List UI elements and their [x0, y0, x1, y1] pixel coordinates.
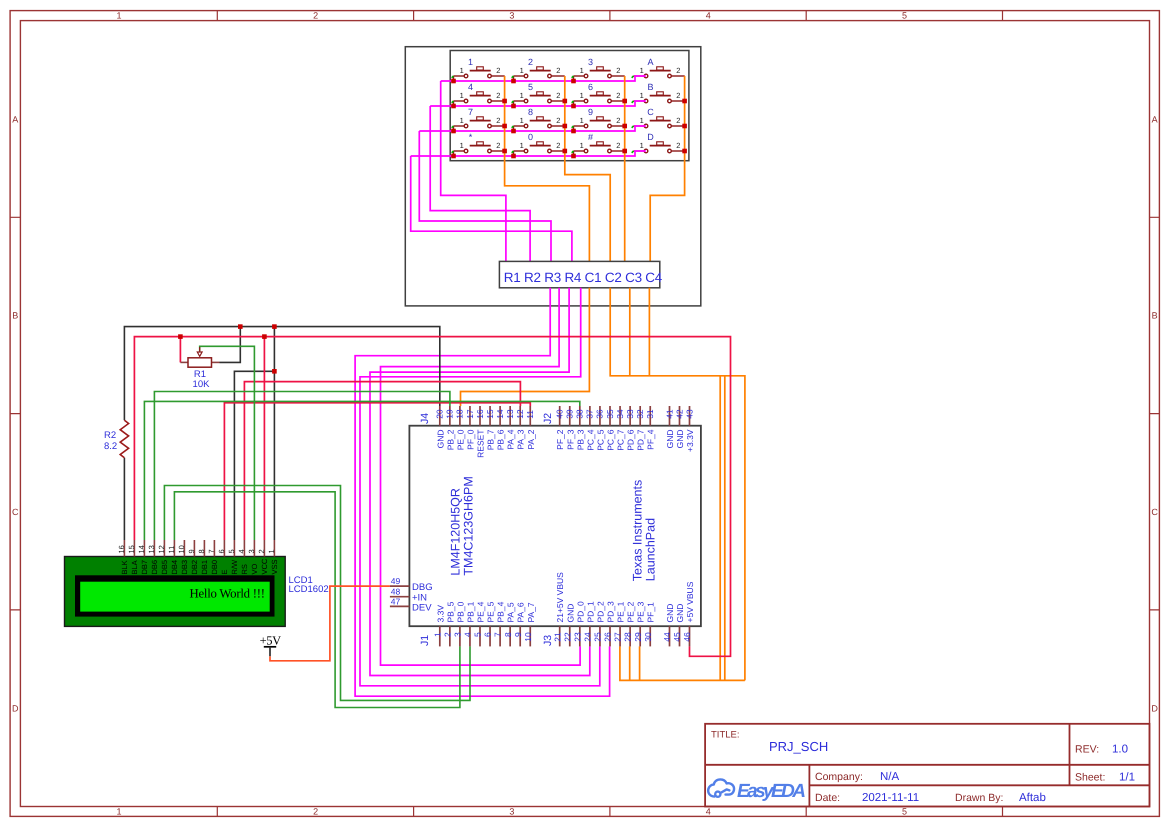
svg-text:2: 2	[313, 807, 318, 817]
MCU pin 40 (PF_2) top stub	[559, 406, 561, 426]
svg-text:2: 2	[616, 66, 620, 75]
pushbutton switch S8 "B"	[634, 92, 685, 103]
svg-text:1: 1	[640, 116, 644, 125]
svg-text:10K: 10K	[193, 379, 211, 390]
svg-text:8: 8	[503, 632, 513, 637]
svg-text:1: 1	[460, 66, 464, 75]
svg-text:1: 1	[267, 549, 276, 553]
junction column C1 row 3	[502, 124, 507, 129]
MCU pin 34 (PC_7) top stub	[619, 406, 621, 426]
MCU pin 20 (GND) top stub	[439, 406, 441, 426]
svg-text:PA_6: PA_6	[516, 602, 526, 622]
junction column C1 row 4	[502, 149, 507, 154]
svg-text:4: 4	[706, 807, 711, 817]
svg-text:9: 9	[513, 632, 523, 637]
svg-text:9: 9	[588, 107, 593, 117]
junction column C2 row 4	[563, 149, 568, 154]
junction column C3 row 2	[622, 99, 627, 104]
svg-text:1: 1	[520, 116, 524, 125]
svg-text:GND: GND	[565, 604, 575, 623]
MCU pin 45 (GND) bottom stub	[679, 626, 681, 646]
svg-text:8: 8	[197, 549, 206, 553]
svg-text:2: 2	[496, 116, 500, 125]
svg-text:PF_4: PF_4	[646, 429, 656, 450]
svg-text:RS: RS	[240, 564, 249, 574]
switch S6 pin 1 connection drop	[513, 101, 515, 106]
svg-text:12: 12	[157, 545, 166, 553]
svg-text:1: 1	[520, 141, 524, 150]
svg-text:PD_6: PD_6	[626, 429, 636, 451]
switch S16 pin 1 connection drop	[632, 151, 634, 153]
MCU pin 25 (PD_2) bottom stub	[599, 626, 601, 646]
pushbutton switch S4 "A"	[634, 67, 685, 78]
pushbutton switch S6 "5"	[514, 92, 565, 103]
svg-text:1: 1	[432, 632, 442, 637]
LCD pin 6 stub	[223, 540, 225, 557]
svg-text:1: 1	[468, 57, 473, 67]
wire orange right side run 2	[724, 376, 726, 681]
title block outline	[705, 724, 1149, 807]
svg-text:DB6: DB6	[150, 560, 159, 575]
LCD pin 3 stub	[253, 540, 255, 557]
svg-text:PE_2: PE_2	[626, 601, 636, 622]
svg-text:47: 47	[391, 596, 401, 606]
pushbutton switch S9 "7"	[454, 117, 505, 128]
svg-text:42: 42	[674, 409, 684, 419]
MCU pin 6 (PE_5) bottom stub	[489, 626, 491, 646]
svg-text:PC_4: PC_4	[585, 429, 595, 451]
svg-text:PE_0: PE_0	[455, 429, 465, 450]
svg-text:+3.3V: +3.3V	[685, 429, 695, 452]
svg-text:VO: VO	[250, 563, 259, 574]
pushbutton switch S10 "8"	[514, 117, 565, 128]
svg-text:13: 13	[505, 409, 515, 419]
svg-text:15: 15	[485, 409, 495, 419]
svg-text:TITLE:: TITLE:	[711, 730, 740, 741]
svg-text:15: 15	[127, 545, 136, 553]
svg-text:1: 1	[116, 10, 121, 20]
wire LCD VO to R1 wiper	[200, 346, 255, 540]
potentiometer R1 left pin stub	[180, 361, 188, 363]
svg-text:46: 46	[682, 632, 692, 642]
svg-text:1: 1	[640, 66, 644, 75]
wire net R4 loop to netport	[411, 156, 572, 261]
svg-text:2: 2	[616, 141, 620, 150]
MCU pin 21 (21+5V VBUS) bottom stub	[559, 626, 561, 646]
junction column C4 row 4	[682, 149, 687, 154]
svg-text:J2: J2	[542, 413, 554, 424]
svg-text:PB_6: PB_6	[496, 429, 506, 450]
svg-text:N/A: N/A	[880, 771, 900, 783]
svg-text:3: 3	[453, 632, 463, 637]
svg-text:PF_1: PF_1	[646, 602, 656, 623]
MCU pin 39 (PF_3) top stub	[569, 406, 571, 426]
MCU pin 35 (PC_6) top stub	[609, 406, 611, 426]
svg-text:A: A	[1152, 114, 1158, 124]
pushbutton switch S15 "#"	[574, 142, 625, 153]
svg-text:Sheet:: Sheet:	[1075, 772, 1105, 784]
MCU pin 47 (DEV) left stub	[390, 605, 410, 607]
wire LCD VCC to +5V net	[263, 337, 265, 540]
junction keypad row R1 col 2	[511, 79, 516, 84]
LCD pin 15 stub	[133, 540, 135, 557]
MCU pin 37 (PC_4) top stub	[589, 406, 591, 426]
svg-text:PE_4: PE_4	[476, 601, 486, 622]
MCU pin 36 (PC_5) top stub	[599, 406, 601, 426]
junction column C2 row 2	[563, 99, 568, 104]
MCU pin 49 (DBG) left stub	[390, 585, 410, 587]
switch S12 pin 1 connection drop	[632, 126, 634, 128]
switch S1 pin 1 connection drop	[453, 76, 455, 81]
switch S9 pin 1 connection drop	[453, 126, 455, 131]
junction +5V/R1	[178, 334, 183, 339]
svg-text:#: #	[588, 132, 593, 142]
svg-text:40: 40	[555, 409, 565, 419]
svg-text:1: 1	[640, 141, 644, 150]
potentiometer R1 wiper arrow	[199, 347, 201, 352]
MCU pin 22 (GND) bottom stub	[569, 626, 571, 646]
svg-text:DBG: DBG	[412, 582, 433, 593]
svg-text:27: 27	[613, 632, 623, 642]
MCU pin 41 (GND) top stub	[669, 406, 671, 426]
svg-text:5: 5	[902, 10, 907, 20]
svg-text:PD_7: PD_7	[636, 429, 646, 451]
junction keypad row R1 col 3	[571, 79, 576, 84]
MCU pin 24 (PD_1) bottom stub	[589, 626, 591, 646]
svg-text:PB_7: PB_7	[486, 429, 496, 450]
pushbutton switch S1 "1"	[454, 67, 505, 78]
svg-text:2: 2	[556, 116, 560, 125]
svg-text:EasyEDA: EasyEDA	[737, 781, 806, 802]
wire net C2 netport down	[610, 288, 745, 681]
svg-text:2: 2	[616, 116, 620, 125]
svg-text:14: 14	[137, 545, 146, 553]
svg-text:Company:: Company:	[815, 771, 863, 783]
svg-text:2: 2	[528, 57, 533, 67]
svg-text:2: 2	[556, 141, 560, 150]
MCU pin 10 (PA_7) bottom stub	[529, 626, 531, 646]
junction GND/VSS	[272, 324, 277, 329]
svg-text:R/W: R/W	[230, 559, 239, 575]
svg-text:41: 41	[664, 409, 674, 419]
MCU pin 17 (PF_0) top stub	[469, 406, 471, 426]
svg-text:1.0: 1.0	[1112, 744, 1128, 756]
svg-text:45: 45	[672, 632, 682, 642]
wire LCD DB7 to MCU pin 38	[144, 401, 579, 540]
net port box R1 R2 R3 R4 C1 C2 C3 C4	[499, 261, 659, 287]
svg-text:B: B	[647, 82, 653, 92]
wire +5V symbol to MCU pin 49 DBG	[270, 586, 390, 661]
svg-text:1: 1	[116, 807, 121, 817]
svg-text:A: A	[647, 57, 653, 67]
svg-text:PA_5: PA_5	[506, 602, 516, 622]
junction GND/R1	[238, 324, 243, 329]
svg-text:PB_0: PB_0	[455, 601, 465, 622]
svg-text:5: 5	[227, 549, 236, 553]
svg-text:Aftab: Aftab	[1019, 792, 1046, 804]
svg-text:38: 38	[575, 409, 585, 419]
svg-text:J3: J3	[542, 635, 554, 646]
svg-text:DB2: DB2	[190, 560, 199, 575]
junction keypad row R2 col 3	[571, 104, 576, 109]
svg-text:VSS: VSS	[270, 559, 279, 574]
MCU pin 7 (PB_4) bottom stub	[499, 626, 501, 646]
svg-text:PE_5: PE_5	[486, 601, 496, 622]
svg-text:49: 49	[391, 576, 401, 586]
svg-text:C: C	[12, 507, 19, 517]
keypad outer box	[405, 47, 701, 306]
switch S2 pin 1 connection drop	[513, 76, 515, 81]
svg-text:21+5V VBUS: 21+5V VBUS	[555, 572, 565, 623]
svg-text:44: 44	[662, 632, 672, 642]
svg-text:2: 2	[676, 141, 680, 150]
LCD pin 11 stub	[173, 540, 175, 557]
MCU pin 12 (PA_3) top stub	[519, 406, 521, 426]
MCU pin 18 (PE_0) top stub	[459, 406, 461, 426]
svg-text:D: D	[12, 703, 19, 713]
MCU pin 43 (+3.3V) top stub	[689, 406, 691, 426]
svg-text:3: 3	[509, 807, 514, 817]
wire net R3 netport to MCU pin 24	[370, 288, 590, 676]
svg-text:DB4: DB4	[170, 560, 179, 575]
wire keypad column net C3	[624, 76, 626, 261]
svg-text:22: 22	[562, 632, 572, 642]
junction VSS/RW	[272, 369, 277, 374]
MCU pin 27 (PE_1) bottom stub	[619, 626, 621, 646]
svg-text:R1 R2 R3 R4 C1 C2 C3 C4: R1 R2 R3 R4 C1 C2 C3 C4	[504, 270, 663, 285]
svg-text:E: E	[220, 569, 229, 574]
svg-text:J1: J1	[419, 635, 431, 646]
svg-text:DB7: DB7	[140, 560, 149, 575]
svg-text:RESET: RESET	[476, 430, 486, 458]
switch S3 pin 1 connection drop	[573, 76, 575, 81]
svg-text:2: 2	[556, 91, 560, 100]
svg-text:Drawn By:: Drawn By:	[955, 792, 1003, 804]
MCU pin 28 (PE_2) bottom stub	[629, 626, 631, 646]
svg-text:2: 2	[442, 632, 452, 637]
MCU pin 48 (+IN) left stub	[390, 596, 410, 598]
svg-text:D: D	[647, 132, 654, 142]
MCU pin 32 (PD_7) top stub	[639, 406, 641, 426]
svg-text:GND: GND	[435, 430, 445, 449]
svg-text:PC_6: PC_6	[606, 429, 616, 451]
svg-text:1/1: 1/1	[1119, 772, 1135, 784]
svg-text:19: 19	[445, 409, 455, 419]
switch S10 pin 1 connection drop	[513, 126, 515, 131]
LCD pin 5 stub	[233, 540, 235, 557]
svg-text:32: 32	[635, 409, 645, 419]
switch S7 pin 1 connection drop	[573, 101, 575, 106]
svg-text:31: 31	[645, 409, 655, 419]
switch S4 pin 1 connection drop	[632, 76, 634, 78]
svg-text:8: 8	[528, 107, 533, 117]
svg-text:34: 34	[615, 409, 625, 419]
svg-text:1: 1	[460, 141, 464, 150]
LCD pin 12 stub	[163, 540, 165, 557]
svg-text:28: 28	[623, 632, 633, 642]
svg-text:1: 1	[640, 91, 644, 100]
LCD pin 16 stub	[123, 540, 125, 557]
svg-text:PB_5: PB_5	[445, 601, 455, 622]
MCU pin 3 (PB_0) bottom stub	[459, 626, 461, 646]
svg-text:LCD1602: LCD1602	[289, 584, 329, 595]
EasyEDA logo cloud	[708, 779, 734, 796]
MCU pin 38 (PB_3) top stub	[579, 406, 581, 426]
wire net R2 netport to MCU pin 23	[381, 288, 581, 665]
svg-text:PB_3: PB_3	[575, 429, 585, 450]
MCU pin 14 (PB_6) top stub	[499, 406, 501, 426]
svg-text:11: 11	[167, 546, 176, 554]
svg-text:48: 48	[391, 587, 401, 597]
svg-text:2: 2	[257, 549, 266, 553]
svg-text:J4: J4	[419, 413, 431, 424]
svg-text:BLA: BLA	[130, 560, 139, 574]
switch S8 pin 1 connection drop	[632, 101, 634, 103]
svg-text:2: 2	[616, 91, 620, 100]
junction keypad row R4 col 1	[451, 154, 456, 159]
MCU pin 15 (PB_7) top stub	[489, 406, 491, 426]
svg-text:PD_3: PD_3	[606, 601, 616, 623]
svg-text:R2: R2	[104, 430, 116, 441]
potentiometer R1 10K body	[188, 358, 212, 367]
svg-text:10: 10	[523, 632, 533, 642]
wire orange bottom run to MCU pins 27 28 29	[620, 646, 745, 680]
svg-text:+5V VBUS: +5V VBUS	[685, 581, 695, 622]
switch S15 pin 1 connection drop	[573, 151, 575, 156]
svg-text:GND: GND	[665, 604, 675, 623]
svg-text:C: C	[1151, 507, 1158, 517]
svg-text:30: 30	[643, 632, 653, 642]
svg-text:36: 36	[595, 409, 605, 419]
svg-text:1: 1	[580, 116, 584, 125]
LCD pin 14 stub	[143, 540, 145, 557]
svg-text:PB_2: PB_2	[445, 429, 455, 450]
junction +5V/VCC	[262, 334, 267, 339]
MCU pin 19 (PB_2) top stub	[449, 406, 451, 426]
svg-text:2: 2	[676, 91, 680, 100]
MCU pin 8 (PA_5) bottom stub	[509, 626, 511, 646]
junction column C1 row 2	[502, 99, 507, 104]
svg-text:5: 5	[473, 632, 483, 637]
MCU pin 23 (PD_0) bottom stub	[579, 626, 581, 646]
svg-text:PD_0: PD_0	[575, 601, 585, 623]
svg-text:REV:: REV:	[1075, 744, 1099, 756]
svg-text:Hello World !!!: Hello World !!!	[190, 586, 266, 600]
svg-text:29: 29	[633, 632, 643, 642]
svg-text:13: 13	[147, 545, 156, 553]
svg-text:PD_2: PD_2	[595, 601, 605, 623]
svg-text:VCC: VCC	[260, 558, 269, 574]
svg-text:14: 14	[495, 409, 505, 419]
svg-text:43: 43	[684, 409, 694, 419]
svg-text:PD_1: PD_1	[585, 601, 595, 623]
svg-text:33: 33	[625, 409, 635, 419]
junction keypad row R4 col 3	[571, 154, 576, 159]
pushbutton switch S11 "9"	[574, 117, 625, 128]
svg-text:DB3: DB3	[180, 560, 189, 575]
svg-text:C: C	[647, 107, 654, 117]
junction column C2 row 3	[563, 124, 568, 129]
pushbutton switch S5 "4"	[454, 92, 505, 103]
switch S13 pin 1 connection drop	[453, 151, 455, 156]
wire keypad row net R2	[430, 101, 646, 106]
wire keypad column net C1	[505, 76, 590, 261]
svg-text:16: 16	[475, 409, 485, 419]
wire net R4 netport to MCU pin 25	[360, 288, 600, 686]
pushbutton switch S14 "0"	[514, 142, 565, 153]
svg-text:B: B	[12, 311, 18, 321]
svg-text:39: 39	[565, 409, 575, 419]
svg-text:PE_1: PE_1	[616, 601, 626, 622]
MCU pin 11 (PA_2) top stub	[529, 406, 531, 426]
keypad matrix inner box	[450, 51, 689, 161]
svg-text:PE_3: PE_3	[636, 601, 646, 622]
svg-text:2: 2	[676, 66, 680, 75]
wire net R1 netport to MCU pin 26	[355, 288, 609, 696]
svg-text:*: *	[469, 132, 473, 142]
svg-text:7: 7	[468, 107, 473, 117]
junction keypad row R3 col 1	[451, 129, 456, 134]
MCU pin 30 (PF_1) bottom stub	[649, 626, 651, 646]
svg-text:LM4F120H5QR: LM4F120H5QR	[448, 488, 462, 576]
junction keypad row R3 col 2	[511, 129, 516, 134]
wire LCD E to MCU pin 11	[224, 403, 530, 540]
svg-text:PB_4: PB_4	[496, 601, 506, 622]
svg-text:23: 23	[572, 632, 582, 642]
svg-text:35: 35	[605, 409, 615, 419]
wire orange right side run 1	[719, 376, 721, 681]
svg-text:3: 3	[509, 10, 514, 20]
MCU pin 31 (PF_4) top stub	[649, 406, 651, 426]
svg-text:25: 25	[593, 632, 603, 642]
MCU pin 4 (PB_1) bottom stub	[469, 626, 471, 646]
svg-text:LaunchPad: LaunchPad	[644, 518, 658, 581]
svg-text:PF_2: PF_2	[555, 429, 565, 450]
MCU pin 5 (PE_4) bottom stub	[479, 626, 481, 646]
svg-text:6: 6	[588, 82, 593, 92]
svg-text:1: 1	[520, 66, 524, 75]
svg-text:6: 6	[483, 632, 493, 637]
junction keypad row R3 col 3	[571, 129, 576, 134]
svg-text:3: 3	[247, 549, 256, 553]
MCU pin 16 (RESET) top stub	[479, 406, 481, 426]
junction column C3 row 3	[622, 124, 627, 129]
wire net C1 netport to MCU pin 18	[461, 288, 590, 406]
LCD pin 1 stub	[273, 540, 275, 557]
svg-text:2: 2	[313, 10, 318, 20]
svg-text:4: 4	[706, 10, 711, 20]
wire R1 right terminal to GND net	[220, 327, 241, 363]
svg-text:8.2: 8.2	[104, 441, 117, 452]
svg-text:3: 3	[588, 57, 593, 67]
LCD pin 7 stub	[213, 540, 215, 557]
switch S14 pin 1 connection drop	[513, 151, 515, 156]
svg-text:16: 16	[117, 545, 126, 553]
svg-text:PB_1: PB_1	[465, 601, 475, 622]
svg-text:1: 1	[520, 91, 524, 100]
switch S5 pin 1 connection drop	[453, 101, 455, 106]
svg-text:10: 10	[177, 545, 186, 553]
junction column C4 row 2	[682, 99, 687, 104]
svg-text:PA_2: PA_2	[526, 429, 536, 449]
LCD pin 9 stub	[193, 540, 195, 557]
svg-text:0: 0	[528, 132, 533, 142]
svg-text:PA_3: PA_3	[516, 429, 526, 449]
svg-text:3.3V: 3.3V	[435, 605, 445, 623]
junction keypad row R2 col 1	[451, 104, 456, 109]
switch S11 pin 1 connection drop	[573, 126, 575, 131]
MCU pin 1 (3.3V) bottom stub	[439, 626, 441, 646]
